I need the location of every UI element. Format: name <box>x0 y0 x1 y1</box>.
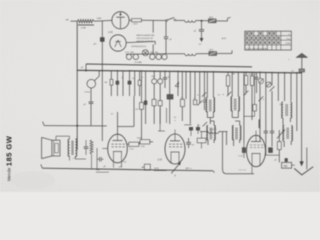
wire tube V1 grid link <box>118 126 135 128</box>
wave switch circle a <box>152 79 157 84</box>
wire link y116 <box>244 115 255 117</box>
capacitor dark V2-b lead <box>197 124 199 127</box>
antenna cap triangle <box>296 53 308 57</box>
wire drop from B+ x153 <box>152 21 154 33</box>
tube V3 pin a <box>251 167 253 174</box>
speaker frame <box>52 140 60 156</box>
resistor box x141.5 <box>140 103 144 110</box>
tube V3 top pin <box>255 131 257 136</box>
wire x279.3 low <box>278 150 280 163</box>
capacitor dark x270.5 <box>269 148 273 153</box>
svg-text:4: 4 <box>175 80 180 90</box>
tube V2 envelope <box>165 134 185 164</box>
IFT2 core line1 <box>233 99 235 111</box>
capacitor diag x204.4 a <box>203 99 206 101</box>
wire drop x190.3 <box>189 72 191 125</box>
tube V1 cathode leg <box>113 152 115 163</box>
wire heater end <box>217 53 233 55</box>
osc coil2 tails <box>283 141 285 147</box>
IFT2 winding B <box>238 97 239 111</box>
wire x272 low2 <box>271 133 273 147</box>
capacitor diag x204.4 b <box>203 101 206 103</box>
trimmer arrow x199.7 <box>197 101 202 106</box>
svg-text:0,5M: 0,5M <box>141 146 145 148</box>
tone capacitor p1 <box>84 146 89 148</box>
wire drop x278.3 <box>277 73 279 102</box>
svg-text:AF/×××: AF/××× <box>186 167 192 170</box>
trimmer arrow IFT3 <box>203 122 207 126</box>
wire x260 low <box>259 84 261 141</box>
wire drop x141.5 <box>141 71 143 103</box>
IFT4 winding A <box>232 126 233 140</box>
wire x160.2 low <box>159 106 161 124</box>
svg-text:0.00 W: 0.00 W <box>211 129 217 131</box>
wire ballast to lamps <box>126 41 155 42</box>
resistor box x111.3 <box>110 79 113 85</box>
wire x97 vertical <box>96 148 98 169</box>
table outer frame <box>245 31 291 50</box>
tone resistor tail <box>91 154 93 169</box>
trimmer circle x261 <box>258 78 263 83</box>
heater wire <box>126 53 167 55</box>
speaker inner line <box>53 140 55 156</box>
choke L1 bumps <box>185 20 196 22</box>
capacitor x272 p1 <box>270 130 274 132</box>
wire x246 low <box>245 85 247 93</box>
table column lines <box>248 31 250 50</box>
lamp La5 <box>156 54 161 59</box>
svg-text:Pos.: Pos. <box>286 38 290 40</box>
wire x306.8 drop <box>306 148 308 170</box>
capacitor dark V2-a <box>189 127 193 130</box>
capacitor C-f plate1 <box>164 36 168 38</box>
arrow head x301.6 <box>300 162 304 167</box>
tube V2 anode leg <box>178 152 180 163</box>
resistor box x254.6 <box>253 105 257 112</box>
resistor box x228 <box>226 76 230 87</box>
IFT4 core line2 <box>236 128 238 140</box>
coupler box x201.5 <box>197 138 206 143</box>
wave switch circle b <box>158 79 163 84</box>
wire after W13 <box>216 20 228 22</box>
choke winding x260 <box>259 120 260 128</box>
tube V1 top pin <box>117 112 119 134</box>
wire x272 low <box>271 91 273 131</box>
capacitor x256.5 p1 <box>255 76 259 78</box>
tube V3 cathode <box>252 153 261 155</box>
wire x166.5 vert <box>166 108 168 123</box>
wire V1 anode out <box>127 143 129 145</box>
speaker cone top <box>42 137 52 140</box>
wire drop x246 <box>245 72 247 75</box>
trimmer arrow IFT2 <box>227 92 231 96</box>
wire x254.6 tail <box>254 111 256 116</box>
capacitor V1 left p1 <box>99 157 101 162</box>
ballast U2 top bar <box>115 41 121 43</box>
wire drop x154.2 <box>153 71 155 78</box>
IFT2 winding A <box>231 97 232 111</box>
wire V1 left cap <box>97 158 100 160</box>
component box x195 <box>193 100 196 105</box>
capacitor C-f lower lead <box>165 39 167 54</box>
lamp La4 <box>150 54 155 59</box>
tube V2 anode <box>170 140 180 142</box>
output transformer feed <box>69 136 71 139</box>
tube V3 anode <box>251 141 261 143</box>
wire drop x265.8 <box>265 72 267 131</box>
wire y126 horizontal <box>44 125 107 127</box>
output transformer primary <box>68 139 69 156</box>
wire rectifier output <box>129 19 131 21</box>
speaker cone mouth <box>41 137 43 158</box>
IFT2 winding A feed <box>231 72 233 97</box>
wire link y155 <box>266 154 280 156</box>
capacitor x165 plate1 <box>163 77 167 79</box>
switch S1 contact b <box>174 19 176 21</box>
ballast U2 filament <box>115 40 121 47</box>
grid blob V3 <box>242 148 245 153</box>
bus junction dot x86 <box>85 70 87 72</box>
resistor underline bar <box>78 24 94 26</box>
wire to junction <box>196 20 209 22</box>
svg-text:185 GW: 185 GW <box>5 135 14 166</box>
junction dot x77 y126 <box>76 125 78 127</box>
tube V1 cathode <box>113 151 122 153</box>
wire drop x260 <box>259 72 261 78</box>
svg-text:(2025)44-(25-0.): (2025)44-(25-0.) <box>131 46 146 48</box>
electrolytic block box <box>282 162 292 168</box>
IFT4 winding B <box>240 126 241 140</box>
resistor W12 hatched body <box>209 52 217 56</box>
dial lamp La3 X-1 <box>143 51 147 55</box>
osc coil2 tune arrow <box>277 131 284 139</box>
smoothing cap C-s upper lead <box>101 21 103 38</box>
IFT3 core line1 <box>209 128 211 140</box>
wire V2 grid cap <box>188 144 190 148</box>
wire to rectifier <box>94 19 112 22</box>
IFT2 winding B feed <box>237 72 239 97</box>
capacitor C-m lead up <box>90 88 92 101</box>
wire x160.1 vert <box>159 108 161 131</box>
capacitor dark body <box>144 101 147 105</box>
wire drop x165 <box>164 71 166 77</box>
arrow K7 head <box>200 38 203 41</box>
junction dot node B+ <box>201 20 203 22</box>
wire drop x186 <box>185 72 187 100</box>
wire x254.6 feed <box>254 72 256 104</box>
trimmer arrow IFT1 <box>202 92 206 96</box>
ground bus end tick <box>213 171 215 173</box>
svg-text:Ohm: Ohm <box>130 148 134 150</box>
dial lamp La3 X-2 <box>143 51 147 55</box>
svg-text:1,43: 1,43 <box>108 31 113 34</box>
osc coil2 core1 <box>286 128 288 140</box>
tone resistor zigzag <box>90 140 93 154</box>
IFT4 core line1 <box>235 128 237 140</box>
resistor W13 hatched body <box>209 19 217 23</box>
wire cap down <box>201 31 203 38</box>
capacitor V2 grid p1 <box>186 141 191 143</box>
wire x139.6 low <box>139 85 141 96</box>
wire x77 to transformer <box>76 136 78 139</box>
capacitor V2 grid p2 <box>186 143 191 145</box>
capacitor dark lower <box>145 105 147 124</box>
svg-text:10n: 10n <box>232 74 235 76</box>
table row lines <box>245 35 291 37</box>
svg-text:Mende: Mende <box>6 167 11 181</box>
wire drop x256.5 <box>256 72 258 77</box>
smoothing cap C-s lower lead <box>101 42 103 71</box>
capacitor dark x129.5 <box>128 81 131 84</box>
lamp La6 <box>162 54 167 59</box>
wire drop x226.5 low <box>226 132 228 145</box>
wire drop x195 <box>194 72 196 100</box>
IFT2 winding A tail <box>231 110 233 117</box>
wire junction down <box>201 21 203 29</box>
bus junction dots <box>102 70 104 72</box>
wire drop x296.8 <box>296 73 298 131</box>
svg-text:BWÖ4 U=HZLP-BK: BWÖ4 U=HZLP-BK <box>137 34 156 37</box>
svg-text:P.12 .1A2: P.12 .1A2 <box>125 51 134 54</box>
ground tick <box>41 164 43 168</box>
resistor W12 stripe <box>210 52 216 55</box>
svg-text:max: max <box>96 170 100 172</box>
svg-text:6λ: 6λ <box>132 78 134 80</box>
wire drop x243 <box>243 72 245 143</box>
wire link y124.8 <box>184 124 191 126</box>
speaker coil detail <box>55 143 59 152</box>
rectifier U1 anode bar <box>116 16 124 18</box>
tube V1 left pin <box>102 148 107 150</box>
wire coil line right <box>219 131 228 133</box>
wire heater to W12 <box>196 53 209 55</box>
IFT1 winding B <box>213 98 214 112</box>
resistor box V1-b <box>140 140 150 144</box>
wire x141.5 lower <box>141 109 143 139</box>
tube V3 anode stem <box>255 135 257 141</box>
wire drop x117.4 <box>116 71 118 81</box>
switch S1 contact a <box>166 20 168 22</box>
svg-text:µF†: µF† <box>119 167 123 169</box>
osc coil winding A <box>282 102 283 118</box>
return wire horizontal <box>226 173 254 175</box>
electrolytic dark mark <box>285 158 288 161</box>
wire y126 tick <box>43 122 45 126</box>
wire x165 low <box>164 79 166 88</box>
tube V2 anode stem <box>174 134 176 141</box>
wire heater right <box>167 53 185 55</box>
osc coil winding B <box>290 102 291 118</box>
capacitor dark x145.6 <box>145 71 147 101</box>
capacitor x272 p2 <box>270 132 274 134</box>
svg-text:1V1/8A: 1V1/8A <box>134 61 142 64</box>
wire x265.8 low2 <box>265 133 267 155</box>
IFT3 tails <box>207 139 209 145</box>
osc coil2 winding A <box>283 126 284 142</box>
svg-text:W13: W13 <box>209 17 213 19</box>
wire x154.2 mid <box>153 84 155 99</box>
capacitor dark x117.4 <box>116 81 119 84</box>
wire coil line left <box>200 131 208 133</box>
wire x154.2 low <box>153 106 155 124</box>
tone capacitor lead <box>85 140 87 146</box>
tube V1 grid dashes2 <box>112 143 125 145</box>
capacitor x256.5 p2 <box>255 78 259 80</box>
IFT1 winding A <box>206 98 207 112</box>
wire heater end hook <box>231 50 233 53</box>
wire drop x228 <box>227 72 229 76</box>
capacitor C-a plate1 <box>199 29 204 31</box>
tube V1 anode stem <box>117 134 119 140</box>
IFT2 core line2 <box>235 99 237 111</box>
main bus line <box>77 70 302 73</box>
tube V2 grid dashes <box>169 146 182 148</box>
coupling coil bumps <box>208 132 219 134</box>
rectifier tube U1 envelope <box>112 12 129 29</box>
pot wiper to ground <box>174 175 176 177</box>
return wire corner <box>223 169 227 174</box>
antenna mast <box>301 57 303 73</box>
wire V1 boxes link <box>139 142 140 144</box>
speaker wire across <box>56 135 70 137</box>
IFT1 winding B feed <box>212 72 214 98</box>
wire x160.2 mid <box>159 84 161 101</box>
svg-text:×××: ××× <box>72 157 75 160</box>
wire x111.3 low <box>110 85 112 96</box>
output transformer secondary <box>75 139 76 156</box>
lamp La1 <box>126 54 131 59</box>
output transformer core2 <box>72 141 74 156</box>
osc coil2 core2 <box>287 128 289 140</box>
ground bus <box>42 168 213 171</box>
wire x169.7 low <box>169 99 171 124</box>
wire drop x291 <box>290 73 292 101</box>
link IFT1-IFT3 <box>210 120 214 122</box>
svg-text:×××.×××: ×××.××× <box>239 168 247 171</box>
svg-text:.1A2 .1A2: .1A2 .1A2 <box>150 51 160 54</box>
tube V3 cathode leg <box>251 154 253 167</box>
tube V1 anode leg <box>121 152 123 163</box>
resistor box x246 <box>244 76 248 86</box>
svg-text:1%W.: 1%W. <box>285 43 291 45</box>
wire drop x178 <box>177 71 179 96</box>
label WW underline <box>154 170 167 172</box>
wire drop x153 lower <box>152 44 154 53</box>
capacitor C-a plate2 <box>199 30 204 32</box>
capacitor C-m plate1 <box>89 101 94 103</box>
wire hook tip <box>228 16 231 19</box>
left mid rail x102 <box>101 71 103 141</box>
bus link x86 <box>85 64 87 71</box>
wire x228 low <box>227 86 229 95</box>
tone capacitor p2 <box>84 147 89 149</box>
mixer block dark <box>167 95 173 100</box>
component box x160.2 row2 <box>158 101 162 106</box>
capacitor dark V2-b <box>196 127 200 130</box>
resistor box x139.6 <box>138 80 141 85</box>
resistor W13 stripe <box>209 19 215 22</box>
osc coil core2 <box>286 104 288 116</box>
wire drop x222.5 low <box>222 132 224 170</box>
capacitor x165 plate2 <box>163 78 167 80</box>
capacitor C-m lead down <box>90 103 92 125</box>
wire after switch <box>176 19 185 21</box>
IFT3 winding B <box>214 126 215 140</box>
speaker cone bottom <box>42 156 52 159</box>
svg-text:ohm/1: ohm/1 <box>137 137 142 139</box>
wire V1-b out <box>150 141 153 143</box>
IFT2 bottom link <box>232 117 238 119</box>
resistor box V1-a <box>129 142 139 146</box>
IFT4 tails <box>233 139 235 146</box>
wire drop x301.6 <box>301 73 303 162</box>
trimmer arrow x246 <box>244 91 249 96</box>
wire drop x284.6 <box>284 73 286 101</box>
heater choke L2 bumps <box>185 54 196 56</box>
wire x256.5 low <box>256 79 258 93</box>
tube V3 grid dashes2 <box>250 144 263 146</box>
wire drop x182.3 <box>181 72 183 100</box>
wire x279.3 feed <box>278 130 280 142</box>
osc coil2 winding B <box>291 126 292 142</box>
IFT1 core line1 <box>209 100 211 112</box>
label max underline <box>96 171 109 173</box>
component box x182.3 <box>180 99 184 106</box>
IFT1 winding A tail <box>206 111 208 117</box>
ballast tube U2 envelope <box>110 35 126 51</box>
wire x147 link <box>142 166 145 168</box>
wire drop x111.3 <box>110 71 112 80</box>
table X marks <box>246 32 249 35</box>
IFT1 core line2 <box>210 100 212 112</box>
resistor R-dropper zigzag <box>77 20 94 23</box>
wire drop x160.2 <box>159 71 161 78</box>
wire drop x252 <box>251 72 253 76</box>
trimmer arrow x260 <box>259 96 264 101</box>
output transformer pri tail <box>69 156 71 161</box>
capacitor C-m plate2 <box>89 102 94 104</box>
trimmer arrow x261 <box>259 79 263 84</box>
trimmer arrow x268.5 <box>266 82 270 87</box>
tone capacitor lead2 <box>85 148 87 155</box>
resistor box x252 <box>250 76 254 86</box>
IFT1 winding A feed <box>206 72 208 98</box>
tube V3 anode leg <box>259 154 261 167</box>
osc coil core1 <box>285 104 287 116</box>
IFT2 winding B tail <box>237 110 239 117</box>
small box x147 <box>144 164 150 170</box>
svg-text:1,43: 1,43 <box>157 160 162 162</box>
resistor R2 box <box>132 19 142 22</box>
wire electrolytic out <box>292 164 295 166</box>
tube V1 pin b <box>121 163 123 168</box>
upper bus line <box>86 64 252 67</box>
output transformer core1 <box>71 141 73 156</box>
wire drop x139.6 <box>139 71 141 80</box>
volume pot arrowhead <box>178 162 180 165</box>
wire x134 vertical <box>133 96 135 127</box>
wire link y131 <box>158 130 165 132</box>
wire mains input <box>71 20 78 22</box>
speaker wire up <box>55 136 57 140</box>
svg-text:GESCH 44 (25-0): GESCH 44 (25-0) <box>137 41 153 43</box>
wire drop x204.4 <box>203 72 205 100</box>
IFT1 bottom link <box>207 117 213 119</box>
rectifier U1 top dot <box>120 14 122 16</box>
svg-text:U.max: U.max <box>85 91 91 93</box>
capacitor C-f upper lead <box>165 21 167 37</box>
wire drop x129.5 <box>129 71 131 81</box>
